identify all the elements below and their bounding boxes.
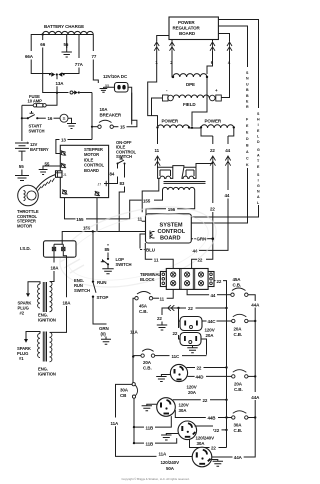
svg-text:BOARD: BOARD (84, 168, 99, 173)
svg-text:22: 22 (197, 366, 202, 371)
svg-text:K: K (246, 163, 249, 167)
GRN wire (191, 237, 214, 242)
svg-text:STOP: STOP (97, 295, 109, 300)
svg-text:50A: 50A (166, 466, 175, 471)
svg-text:20A: 20A (234, 327, 243, 332)
svg-text:BATTERY: BATTERY (30, 147, 49, 152)
svg-text:B: B (246, 88, 249, 92)
CT strap 1 (158, 167, 173, 178)
svg-text:11: 11 (160, 296, 165, 301)
svg-text:N: N (246, 77, 249, 81)
wire 11 out bottom left of terminal block (153, 289, 174, 301)
watermark (52, 193, 225, 302)
120V 20A label for duplex (205, 328, 215, 339)
on-off idle control switch (116, 140, 137, 165)
wire 18A to ignition 1 (52, 251, 71, 333)
svg-text:44: 44 (211, 293, 216, 298)
CT secondary winding (163, 187, 195, 190)
svg-text:GRN: GRN (99, 326, 109, 331)
wire 4 connector (222, 42, 233, 98)
node 55 tap + ground (62, 35, 72, 58)
svg-text:83: 83 (120, 181, 125, 186)
wire 83 (119, 164, 125, 232)
svg-text:FIELD: FIELD (183, 102, 196, 107)
svg-text:66A: 66A (25, 54, 34, 59)
svg-text:MOTOR: MOTOR (17, 223, 32, 228)
svg-text:H: H (257, 118, 260, 122)
hot bus 44A (212, 301, 260, 461)
ground left of 44D receptacle (156, 375, 170, 382)
svg-text:POWER: POWER (205, 119, 222, 124)
120V 20A label (187, 385, 197, 396)
svg-text:44C: 44C (208, 319, 217, 324)
wire 22 lower from 120/240V (190, 439, 227, 450)
wire 155 (65, 190, 163, 222)
svg-text:A: A (257, 154, 260, 158)
svg-text:CONTROL: CONTROL (158, 229, 186, 235)
wire 1 with connector (148, 36, 169, 127)
GRN (0) ground from stop (93, 297, 111, 345)
svg-text:J1: J1 (63, 173, 67, 177)
svg-text:44A: 44A (234, 455, 243, 460)
11B tap to 120/240V receptacle (133, 438, 177, 446)
wire 44D and 20A breaker (188, 370, 257, 392)
svg-text:44B: 44B (208, 416, 217, 421)
10A breaker (91, 93, 137, 140)
svg-text:22: 22 (173, 331, 178, 336)
svg-text:11B: 11B (146, 425, 155, 430)
junction between windings (189, 127, 201, 129)
svg-text:11A: 11A (111, 421, 120, 426)
ground left of 120V 30A (142, 404, 157, 411)
pin J2 lower (39, 162, 66, 175)
30A CB vertical on 11A bus (111, 330, 157, 457)
wire 22 from 120V 30A (173, 398, 228, 403)
svg-text:POWER: POWER (178, 20, 195, 25)
svg-text:SWITCH: SWITCH (29, 129, 45, 134)
svg-text:10 AMP: 10 AMP (28, 99, 43, 104)
svg-text:C.B.: C.B. (234, 387, 243, 392)
svg-text:I.S.D.: I.S.D. (20, 246, 31, 251)
svg-text:REGULATOR: REGULATOR (173, 26, 201, 31)
throttle control stepper motor M1 (17, 185, 39, 228)
wire 22 out right of terminal block (214, 279, 227, 305)
svg-text:G: G (257, 148, 260, 152)
svg-text:SWITCH: SWITCH (74, 288, 90, 293)
svg-text:20A: 20A (143, 360, 152, 365)
svg-text:22: 22 (188, 306, 193, 311)
fuse 10 amp (22, 92, 58, 107)
svg-text:45A: 45A (233, 277, 242, 282)
svg-text:77: 77 (92, 54, 97, 59)
duplex receptacle outlet 1 (179, 308, 203, 331)
svg-text:(0): (0) (101, 332, 107, 337)
12V battery (15, 141, 49, 181)
svg-text:66: 66 (40, 42, 45, 47)
svg-text:BLU: BLU (146, 248, 155, 253)
svg-text:#1: #1 (19, 356, 24, 361)
svg-text:18A: 18A (63, 301, 72, 306)
pin J6 (95, 191, 100, 196)
wire 11 with connector (155, 128, 161, 168)
svg-text:I: I (258, 123, 259, 127)
svg-text:22: 22 (211, 446, 216, 451)
svg-text:10A: 10A (100, 107, 109, 112)
link DPE to power junction (192, 78, 207, 126)
pin J2 upper (61, 151, 66, 156)
svg-text:11C: 11C (172, 354, 181, 359)
wire 77 (92, 35, 99, 84)
receptacle 44D 120V 20A twist-lock (170, 364, 187, 381)
svg-text:20A: 20A (188, 390, 197, 395)
wire 2 with connector (170, 40, 175, 78)
svg-text:22: 22 (157, 316, 162, 321)
svg-text:BLOCK: BLOCK (140, 277, 154, 282)
svg-text:155: 155 (76, 217, 84, 222)
svg-text:44: 44 (225, 193, 230, 198)
wire 85 and LOP switch (101, 244, 132, 274)
svg-text:13: 13 (61, 138, 66, 143)
system control board U2 (146, 214, 192, 243)
svg-text:B: B (246, 94, 249, 98)
svg-text:GRN: GRN (197, 237, 207, 242)
svg-text:15: 15 (120, 125, 125, 130)
svg-text:N: N (257, 190, 260, 194)
svg-text:30A: 30A (234, 423, 243, 428)
DPE winding (172, 74, 208, 87)
svg-text:BOARD: BOARD (160, 236, 181, 242)
ground left of 120/240V 30A (161, 434, 178, 441)
wire 77A (61, 35, 84, 74)
spark plug 2 (18, 293, 32, 315)
svg-text:77A: 77A (75, 62, 84, 67)
svg-text:U: U (246, 82, 249, 86)
pin J7 stub (98, 181, 109, 187)
svg-text:SWITCH: SWITCH (116, 154, 132, 159)
neutral 22 wire with quick connector and ground (157, 305, 179, 330)
wire 22 to bus (177, 306, 227, 311)
svg-text:A: A (257, 195, 260, 199)
svg-text:155: 155 (143, 198, 151, 203)
connector pair on 13A bus (49, 72, 65, 93)
ignition coil 2 (28, 282, 56, 323)
svg-text:120V: 120V (179, 403, 189, 408)
BLU wire (140, 234, 155, 253)
shield gate signal wire (192, 20, 261, 218)
wire 22 upper from 120/240V (195, 426, 228, 433)
wire 18A to ignition 2 (50, 251, 59, 282)
svg-text:I: I (258, 178, 259, 182)
svg-text:22: 22 (198, 257, 203, 262)
svg-text:22: 22 (210, 207, 215, 212)
wire 22 from 44D receptacle (187, 366, 228, 371)
svg-text:20A: 20A (206, 333, 215, 338)
svg-text:BOARD: BOARD (179, 31, 196, 36)
svg-text:SWITCH: SWITCH (116, 262, 132, 267)
svg-text:C: C (246, 157, 249, 161)
svg-text:SYSTEM: SYSTEM (160, 223, 183, 229)
hourmeter S + 16 (48, 114, 77, 128)
power winding 1 (156, 119, 190, 129)
spark plug 1 (17, 339, 31, 361)
terminal block TB1 (140, 269, 214, 290)
wire 66 (40, 36, 68, 93)
svg-text:S: S (63, 116, 66, 121)
snubber feedback wire (192, 26, 250, 223)
svg-text:D: D (257, 140, 260, 144)
svg-text:20A: 20A (234, 382, 243, 387)
svg-text:D: D (246, 137, 249, 141)
wire 66A (25, 35, 51, 74)
wire 22 into terminal block (192, 257, 203, 268)
pin J4 (62, 190, 67, 195)
eng run switch (74, 232, 108, 301)
wire 13 to stepper board (56, 138, 92, 154)
CT strap 2 (182, 164, 213, 179)
svg-text:30A: 30A (179, 408, 188, 413)
receptacle 120/240V 30A twist-lock (178, 421, 214, 446)
svg-text:44A: 44A (251, 395, 260, 400)
wire 44C and 20A breaker (202, 314, 256, 337)
power winding 2 (200, 119, 235, 129)
CT core (164, 182, 206, 184)
wire 156 (62, 190, 195, 241)
battery charge winding T1 (42, 24, 94, 36)
neutral bus 22 (226, 305, 228, 448)
svg-text:POWER: POWER (162, 119, 179, 124)
wire 6 with connector (207, 40, 215, 75)
svg-text:45A: 45A (139, 304, 148, 309)
svg-text:120/240V: 120/240V (161, 460, 180, 465)
svg-text:IGNITION: IGNITION (38, 318, 56, 323)
svg-text:C.B.: C.B. (234, 428, 243, 433)
wire 44 with connector (191, 128, 234, 254)
svg-text:11: 11 (155, 148, 160, 153)
svg-text:J7: J7 (98, 183, 102, 187)
receptacle 120/240V 50A twist-lock (159, 447, 212, 471)
connector J1 (56, 171, 67, 178)
start switch (21, 105, 46, 141)
svg-text:12V/10A DC: 12V/10A DC (103, 74, 128, 79)
wire 84 to J7 (109, 164, 118, 184)
svg-text:C.B.: C.B. (139, 309, 148, 314)
svg-text:A: A (246, 150, 249, 154)
svg-text:CB: CB (120, 393, 127, 398)
svg-text:30A: 30A (120, 388, 129, 393)
svg-text:44A: 44A (251, 303, 260, 308)
svg-text:16: 16 (48, 116, 53, 121)
hatched cable motor to J1 (36, 175, 56, 191)
stepper motor idle control board U3 (60, 145, 108, 197)
svg-text:C.B.: C.B. (234, 332, 243, 337)
svg-text:11A: 11A (159, 452, 168, 457)
duplex ground (187, 346, 197, 353)
svg-text:RUN: RUN (97, 280, 106, 285)
power regulator board U1 (169, 17, 218, 40)
svg-text:22: 22 (214, 428, 219, 433)
wire 44 out bottom of terminal block (187, 289, 231, 298)
wire 22 with connector (201, 128, 216, 259)
svg-text:G: G (257, 184, 260, 188)
svg-text:R: R (246, 105, 249, 109)
wire 44B and 30A breaker (175, 410, 256, 433)
svg-text:IGNITION: IGNITION (38, 372, 56, 377)
svg-text:C.B.: C.B. (143, 366, 152, 371)
duplex receptacle outlet 2 (173, 321, 202, 346)
svg-text:13A: 13A (56, 81, 65, 86)
ignition coil 1 (26, 332, 56, 377)
svg-text:BREAKER: BREAKER (100, 113, 122, 118)
svg-text:120V: 120V (205, 328, 215, 333)
svg-text:11: 11 (154, 257, 159, 262)
CT strap bridge (173, 166, 184, 168)
wire 11 into control board (138, 178, 159, 221)
svg-text:11B: 11B (146, 441, 155, 446)
circuit breaker 45A left (133, 292, 153, 358)
svg-text:22: 22 (203, 398, 208, 403)
svg-text:22: 22 (210, 148, 215, 153)
11B tap to 120V 30A receptacle (133, 416, 172, 430)
svg-text:Copyright © Briggs & Stratton,: Copyright © Briggs & Stratton, LLC. All … (122, 477, 190, 481)
wire 11C (132, 339, 207, 371)
svg-text:44: 44 (225, 148, 230, 153)
svg-text:B: B (246, 144, 249, 148)
svg-text:BATTERY CHARGE: BATTERY CHARGE (44, 24, 84, 29)
svg-text:55: 55 (19, 164, 24, 169)
svg-text:22: 22 (217, 279, 222, 284)
circuit breaker 45A right (231, 277, 255, 301)
svg-text:85: 85 (105, 247, 110, 252)
svg-text:11A: 11A (130, 330, 139, 335)
wire 11 from SCB to terminal block (145, 243, 173, 269)
ISD box (20, 241, 76, 257)
svg-text:120/240V: 120/240V (196, 436, 215, 441)
svg-text:18A: 18A (51, 266, 60, 271)
svg-text:30A: 30A (197, 441, 206, 446)
svg-text:C.B.: C.B. (233, 283, 242, 288)
svg-text:120V: 120V (187, 385, 197, 390)
ground 55 at DC receptacle (100, 84, 115, 92)
receptacle 120V 30A twist-lock (157, 398, 189, 417)
svg-text:DPE: DPE (186, 82, 195, 87)
12V/10A DC receptacle (103, 74, 132, 125)
connector on 66 bus (70, 90, 92, 94)
field winding with brushes (152, 88, 222, 116)
ground right of 50A receptacle (212, 460, 223, 467)
wire 4 stub from board (218, 34, 229, 42)
svg-text:44D: 44D (196, 375, 205, 380)
svg-text:#2: #2 (20, 311, 25, 316)
svg-text:84: 84 (110, 172, 115, 177)
